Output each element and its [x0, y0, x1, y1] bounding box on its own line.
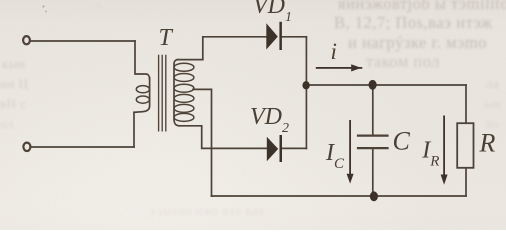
- svg-text:ла: ла: [486, 76, 499, 91]
- node capacitor bottom junction: [370, 191, 378, 201]
- resistor R body: [457, 123, 473, 168]
- wire bottom rail: [212, 195, 467, 197]
- wire secondary top lead: [178, 37, 203, 60]
- wire VD1 anode: [203, 36, 266, 38]
- wire cathode bus (VD1 to VD2): [305, 37, 307, 149]
- wire VD2 cathode: [282, 147, 307, 149]
- svg-text:нα Ц: нα Ц: [0, 76, 29, 91]
- main schematic strokes: [23, 36, 473, 196]
- svg-text:T: T: [159, 25, 174, 51]
- svg-text:узыэап ижо кте ваэ: узыэап ижо кте ваэ: [150, 203, 264, 218]
- svg-text:и нагрýзке г. мэmо: и нагрýзке г. мэmо: [348, 33, 487, 52]
- svg-text:вН с: вН с: [0, 96, 27, 111]
- primary winding of transformer T: [134, 78, 150, 112]
- secondary winding of transformer T: [174, 60, 194, 126]
- input terminal bottom: [23, 143, 30, 151]
- wire capacitor top lead: [372, 85, 374, 135]
- node junction at VD1 cathode / output: [302, 81, 309, 89]
- wire primary bottom lead: [133, 112, 135, 147]
- input terminal top: [23, 36, 30, 44]
- svg-text:i: i: [331, 39, 337, 64]
- transformer core: [159, 55, 166, 130]
- wire primary top lead: [135, 41, 150, 79]
- filled elements: [266, 22, 447, 201]
- svg-text:ыи: ыи: [484, 96, 501, 111]
- wire secondary bottom lead to VD2: [179, 126, 267, 149]
- svg-text:C: C: [393, 127, 411, 156]
- svg-text:таком пол: таком пол: [366, 52, 440, 71]
- wire output positive rail: [306, 84, 466, 86]
- diode VD2: [267, 135, 282, 162]
- capacitor C plates: [358, 136, 388, 149]
- svg-text:. :.: . :.: [90, 0, 103, 11]
- wire top input: [30, 40, 135, 42]
- wire capacitor bottom lead: [372, 149, 374, 196]
- svg-text:ол: ол: [0, 116, 14, 131]
- wire VD1 cathode: [282, 36, 307, 38]
- wire bottom input: [31, 146, 134, 148]
- tiny ink specks (decorative): [42, 5, 46, 12]
- wire resistor top lead: [465, 85, 467, 123]
- svg-text:кын: кын: [2, 56, 26, 71]
- svg-text:В, 12,7; Поs,ваэ нтэж: В, 12,7; Поs,ваэ нтэж: [334, 13, 493, 32]
- node capacitor top junction: [369, 80, 377, 90]
- diode VD1: [266, 22, 282, 50]
- current arrow i: [316, 64, 363, 71]
- svg-text:R: R: [479, 129, 496, 158]
- current arrow I_C: [347, 120, 354, 184]
- current arrow I_R: [441, 116, 448, 185]
- wire center tap to bottom rail: [193, 89, 212, 196]
- wire resistor bottom lead: [465, 168, 467, 196]
- svg-text:яинэжовтjоb ы тэmiliton: яинэжовтjоb ы тэmiliton: [338, 0, 506, 13]
